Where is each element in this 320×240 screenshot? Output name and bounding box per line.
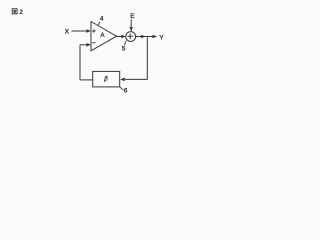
arrowhead into amp + input <box>86 29 91 33</box>
wire feedback to beta block <box>125 78 147 80</box>
arrowhead into summer <box>121 35 126 39</box>
wire feedback up <box>79 45 81 80</box>
block beta (callout 6) <box>93 71 120 87</box>
callout 6 <box>120 87 123 90</box>
wire amp to summer <box>117 36 122 38</box>
arrowhead into beta block <box>120 78 125 82</box>
svg-text:6: 6 <box>124 87 128 94</box>
wire E down to summer <box>130 19 132 27</box>
summing junction circle (callout 5) <box>126 32 136 42</box>
arrowhead into amp minus input <box>86 43 91 47</box>
arrowhead to Y <box>153 35 158 39</box>
op-amp U (amplifier A, callout 4) <box>91 22 117 51</box>
node junction feedback tap <box>146 37 148 80</box>
svg-text:5: 5 <box>122 46 126 53</box>
svg-text:β: β <box>103 77 108 83</box>
plus sign in circle <box>127 33 133 39</box>
arrowhead down into summer <box>129 27 133 31</box>
wire X to amplifier <box>72 30 88 32</box>
wire summer to Y <box>136 36 153 38</box>
callout 5 <box>124 41 126 45</box>
mid arrowhead at junction <box>141 35 146 39</box>
svg-text:X: X <box>65 29 70 36</box>
svg-text:2: 2 <box>19 9 23 16</box>
plus input sign <box>92 29 95 32</box>
wire beta block output left <box>80 79 93 81</box>
svg-text:4: 4 <box>100 16 104 23</box>
svg-text:Y: Y <box>159 35 164 42</box>
wire feedback to amp minus input <box>80 44 87 46</box>
svg-text:E: E <box>130 13 135 20</box>
figure label 图 2 <box>12 9 17 14</box>
svg-text:A: A <box>100 32 105 39</box>
minus input sign <box>92 42 95 44</box>
